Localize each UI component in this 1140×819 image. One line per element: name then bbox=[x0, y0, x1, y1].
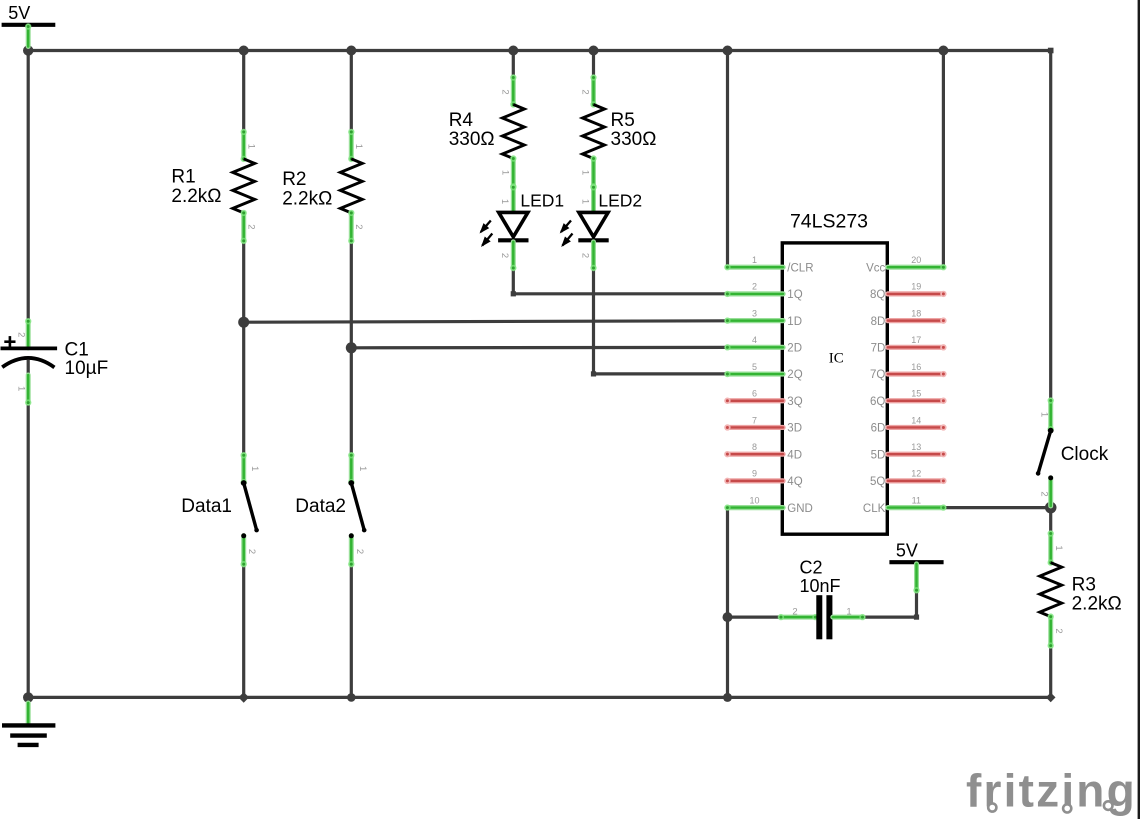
svg-text:2: 2 bbox=[752, 282, 757, 292]
svg-text:CLK: CLK bbox=[863, 503, 886, 515]
svg-text:1: 1 bbox=[580, 170, 591, 175]
svg-text:4: 4 bbox=[752, 335, 757, 345]
svg-text:10µF: 10µF bbox=[65, 358, 109, 379]
svg-text:8: 8 bbox=[752, 442, 757, 452]
svg-text:74LS273: 74LS273 bbox=[790, 211, 868, 233]
junction top rail Vcc bbox=[938, 46, 948, 56]
svg-text:3: 3 bbox=[752, 308, 757, 318]
junction top rail R2 bbox=[346, 46, 356, 56]
svg-text:3Q: 3Q bbox=[787, 396, 802, 408]
wire node R2 to pin 2D bbox=[351, 346, 727, 350]
svg-text:5V: 5V bbox=[896, 541, 918, 561]
wire C2 to 5V corner bbox=[863, 590, 920, 619]
junction node R2-2D bbox=[346, 342, 357, 353]
svg-text:Data2: Data2 bbox=[295, 496, 346, 517]
svg-text:R1: R1 bbox=[171, 167, 195, 188]
svg-text:8D: 8D bbox=[871, 316, 886, 328]
wire R2 column top bbox=[350, 51, 353, 132]
svg-text:2: 2 bbox=[499, 89, 510, 94]
wire GND to bottom rail bbox=[726, 508, 729, 698]
wire bottom rail bbox=[28, 696, 1050, 699]
svg-text:7D: 7D bbox=[871, 343, 886, 355]
junction top rail clock corner bbox=[1048, 48, 1054, 54]
svg-text:4Q: 4Q bbox=[787, 476, 802, 488]
LED LED2 bbox=[560, 184, 642, 271]
wire R4 column top bbox=[512, 51, 515, 79]
junction bottom rail Data2 bbox=[347, 693, 356, 702]
junction bottom rail R3 bbox=[1046, 693, 1056, 703]
wire CLK to clock node bbox=[943, 506, 1050, 509]
IC 74LS273 bbox=[724, 211, 946, 535]
svg-text:330Ω: 330Ω bbox=[611, 129, 657, 150]
svg-text:1: 1 bbox=[752, 255, 757, 265]
svg-text:14: 14 bbox=[911, 415, 921, 425]
svg-text:R4: R4 bbox=[449, 110, 474, 131]
power symbol 5V (top left) bbox=[2, 3, 56, 47]
svg-text:1: 1 bbox=[249, 466, 260, 471]
svg-text:18: 18 bbox=[911, 308, 921, 318]
junction GND-C2 node bbox=[723, 612, 733, 622]
svg-text:2: 2 bbox=[1039, 491, 1050, 496]
wire R2 to Data2 bbox=[350, 241, 353, 455]
svg-text:2: 2 bbox=[1053, 628, 1064, 633]
svg-text:1: 1 bbox=[1039, 412, 1050, 417]
svg-text:1: 1 bbox=[1053, 545, 1064, 550]
svg-text:2: 2 bbox=[353, 224, 364, 229]
wire R1 column top bbox=[242, 51, 245, 132]
svg-text:C2: C2 bbox=[800, 557, 823, 577]
svg-text:IC: IC bbox=[829, 351, 844, 367]
switch Data2 bbox=[295, 452, 368, 567]
svg-text:2: 2 bbox=[579, 253, 590, 258]
svg-text:6Q: 6Q bbox=[870, 396, 885, 408]
junction bottom rail GND bbox=[723, 693, 732, 702]
svg-text:6: 6 bbox=[752, 389, 757, 399]
svg-text:15: 15 bbox=[911, 389, 921, 399]
resistor R1 (2.2k) bbox=[171, 129, 256, 244]
svg-text:Vcc: Vcc bbox=[866, 262, 885, 274]
junction 5V corner bbox=[23, 45, 33, 55]
svg-text:16: 16 bbox=[911, 362, 921, 372]
svg-text:2: 2 bbox=[580, 89, 591, 94]
svg-text:8Q: 8Q bbox=[870, 289, 885, 301]
junction bottom rail ground bbox=[23, 692, 33, 702]
fritzing watermark bbox=[966, 765, 1137, 817]
svg-text:LED1: LED1 bbox=[520, 190, 564, 210]
wire R3 to bottom rail bbox=[1049, 646, 1052, 698]
svg-text:5V: 5V bbox=[8, 3, 30, 23]
svg-text:2.2kΩ: 2.2kΩ bbox=[171, 186, 221, 207]
svg-text:7Q: 7Q bbox=[870, 369, 885, 381]
svg-text:1: 1 bbox=[15, 386, 26, 391]
svg-text:17: 17 bbox=[911, 335, 921, 345]
svg-text:4D: 4D bbox=[787, 449, 802, 461]
junction clock node bbox=[1045, 502, 1057, 514]
right edge border bbox=[1138, 0, 1140, 819]
junction top rail /CLR bbox=[723, 46, 733, 56]
svg-text:1: 1 bbox=[245, 144, 256, 149]
wire right drop to Clock switch bbox=[1049, 49, 1052, 401]
svg-text:1: 1 bbox=[499, 170, 510, 175]
svg-text:5: 5 bbox=[752, 362, 757, 372]
svg-text:10nF: 10nF bbox=[800, 576, 841, 596]
svg-text:5Q: 5Q bbox=[870, 476, 885, 488]
svg-text:2.2kΩ: 2.2kΩ bbox=[1072, 594, 1122, 615]
svg-text:9: 9 bbox=[752, 469, 757, 479]
svg-text:7: 7 bbox=[752, 415, 757, 425]
junction top rail R4 bbox=[508, 46, 518, 56]
svg-text:2.2kΩ: 2.2kΩ bbox=[282, 188, 332, 209]
LED LED1 bbox=[480, 184, 565, 271]
resistor R5 (330) bbox=[580, 74, 657, 189]
junction bottom rail Data1 bbox=[238, 692, 249, 703]
wire C1 to ground bbox=[27, 360, 30, 697]
wire /CLR to top rail bbox=[726, 51, 729, 268]
svg-text:1D: 1D bbox=[787, 316, 802, 328]
wire R5 column top bbox=[592, 51, 595, 79]
svg-text:LED2: LED2 bbox=[598, 190, 642, 210]
svg-text:19: 19 bbox=[911, 282, 921, 292]
svg-text:1: 1 bbox=[579, 199, 590, 204]
svg-text:2: 2 bbox=[792, 607, 797, 618]
svg-text:13: 13 bbox=[911, 442, 921, 452]
svg-text:2D: 2D bbox=[787, 343, 802, 355]
wire R1 to Data1 bbox=[242, 241, 245, 455]
capacitor C2 (10nF) bbox=[778, 557, 866, 639]
svg-text:/CLR: /CLR bbox=[787, 262, 813, 274]
wire LED2 to pin 2Q bbox=[591, 268, 728, 377]
svg-text:12: 12 bbox=[911, 469, 921, 479]
svg-text:1: 1 bbox=[499, 199, 510, 204]
svg-text:R5: R5 bbox=[611, 110, 635, 131]
wire left rail (5V to C1) bbox=[27, 51, 30, 349]
svg-text:3D: 3D bbox=[787, 423, 802, 435]
wire GND node to C2 bbox=[728, 615, 781, 618]
svg-text:1: 1 bbox=[353, 144, 364, 149]
svg-text:11: 11 bbox=[912, 495, 921, 505]
ground symbol bbox=[2, 703, 55, 745]
wire top rail bbox=[27, 49, 1051, 52]
wire Data2 to bottom rail bbox=[350, 564, 353, 697]
switch Data1 bbox=[181, 452, 260, 567]
resistor R3 (2.2k) bbox=[1040, 530, 1122, 649]
wire Data1 to bottom rail bbox=[242, 564, 245, 697]
capacitor C1 (10uF electrolytic) bbox=[1, 318, 109, 406]
svg-text:2: 2 bbox=[246, 549, 257, 554]
svg-text:6D: 6D bbox=[871, 423, 886, 435]
power symbol 5V (near C2) bbox=[889, 541, 943, 594]
switch Clock bbox=[1036, 397, 1109, 506]
junction top rail R5 bbox=[589, 46, 599, 56]
resistor R4 (330) bbox=[449, 74, 525, 189]
svg-text:GND: GND bbox=[787, 503, 813, 515]
svg-text:20: 20 bbox=[911, 255, 921, 265]
resistor R2 (2.2k) bbox=[282, 129, 364, 244]
svg-text:2: 2 bbox=[499, 253, 510, 258]
wire LED1 to pin 1Q bbox=[511, 268, 728, 296]
svg-text:2Q: 2Q bbox=[787, 369, 802, 381]
svg-text:2: 2 bbox=[15, 332, 26, 337]
svg-text:R3: R3 bbox=[1072, 575, 1096, 596]
svg-text:1Q: 1Q bbox=[787, 289, 802, 301]
svg-text:1: 1 bbox=[846, 607, 851, 618]
wire node R1 to pin 1D bbox=[244, 321, 728, 322]
junction top rail R1 bbox=[239, 46, 249, 56]
svg-text:Data1: Data1 bbox=[181, 496, 232, 517]
svg-text:2: 2 bbox=[245, 224, 256, 229]
svg-text:5D: 5D bbox=[871, 449, 886, 461]
junction node R1-1D bbox=[238, 317, 249, 328]
svg-text:2: 2 bbox=[354, 549, 365, 554]
svg-text:R2: R2 bbox=[282, 169, 306, 190]
wire clock node to R3 bbox=[1049, 508, 1052, 534]
svg-text:10: 10 bbox=[749, 495, 759, 505]
svg-text:330Ω: 330Ω bbox=[449, 129, 495, 150]
wire Vcc to top rail bbox=[942, 51, 945, 268]
svg-text:Clock: Clock bbox=[1061, 444, 1109, 465]
svg-text:1: 1 bbox=[357, 466, 368, 471]
